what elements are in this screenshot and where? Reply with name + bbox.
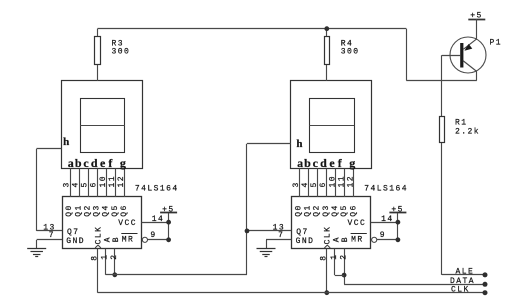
svg-text:CLK: CLK xyxy=(324,226,333,245)
svg-text:a: a xyxy=(297,156,303,170)
svg-text:VCC: VCC xyxy=(348,219,367,228)
svg-text:Q1: Q1 xyxy=(304,204,313,217)
svg-text:Q1: Q1 xyxy=(74,204,83,217)
svg-text:+5: +5 xyxy=(470,11,483,20)
svg-text:74LS164: 74LS164 xyxy=(364,185,408,194)
svg-text:VCC: VCC xyxy=(118,219,137,228)
svg-text:Q6: Q6 xyxy=(349,204,358,217)
svg-text:Q2: Q2 xyxy=(313,204,322,217)
svg-text:Q5: Q5 xyxy=(340,204,349,217)
svg-text:R1: R1 xyxy=(455,119,468,128)
svg-text:B: B xyxy=(112,236,121,242)
svg-text:g: g xyxy=(349,156,355,170)
svg-text:12: 12 xyxy=(346,175,355,188)
svg-text:3: 3 xyxy=(292,181,301,187)
svg-text:8: 8 xyxy=(90,255,99,261)
svg-text:P1: P1 xyxy=(490,38,503,47)
svg-text:Q6: Q6 xyxy=(120,204,129,217)
svg-text:7: 7 xyxy=(278,231,284,240)
svg-text:ALE: ALE xyxy=(456,268,475,277)
svg-text:10: 10 xyxy=(329,175,338,188)
svg-text:GND: GND xyxy=(296,237,315,246)
svg-text:GND: GND xyxy=(66,237,85,246)
svg-text:11: 11 xyxy=(337,175,346,188)
svg-text:3: 3 xyxy=(63,181,72,187)
svg-text:Q4: Q4 xyxy=(102,204,111,217)
svg-text:5: 5 xyxy=(81,181,90,187)
svg-text:e: e xyxy=(329,156,335,170)
svg-text:6: 6 xyxy=(319,181,328,187)
svg-text:9: 9 xyxy=(150,231,156,240)
svg-text:MR: MR xyxy=(122,236,135,245)
svg-text:b: b xyxy=(75,156,82,170)
svg-text:300: 300 xyxy=(112,48,131,57)
svg-text:c: c xyxy=(83,156,89,170)
svg-text:1: 1 xyxy=(330,254,339,260)
svg-text:d: d xyxy=(320,156,327,170)
svg-text:MR: MR xyxy=(351,236,364,245)
svg-text:9: 9 xyxy=(380,231,386,240)
svg-text:Q0: Q0 xyxy=(294,204,303,217)
svg-text:14: 14 xyxy=(152,215,165,224)
svg-text:74LS164: 74LS164 xyxy=(135,185,179,194)
svg-text:b: b xyxy=(304,156,311,170)
svg-text:g: g xyxy=(120,156,126,170)
svg-text:B: B xyxy=(341,236,350,242)
svg-text:Q5: Q5 xyxy=(111,204,120,217)
svg-text:8: 8 xyxy=(320,255,329,261)
svg-text:CLK: CLK xyxy=(451,286,470,295)
svg-text:Q7: Q7 xyxy=(67,228,80,237)
svg-text:h: h xyxy=(63,136,69,148)
svg-text:a: a xyxy=(68,156,74,170)
svg-text:CLK: CLK xyxy=(94,226,103,245)
svg-text:14: 14 xyxy=(381,215,394,224)
svg-text:12: 12 xyxy=(117,175,126,188)
svg-text:d: d xyxy=(91,156,98,170)
svg-text:e: e xyxy=(100,156,106,170)
svg-text:5: 5 xyxy=(310,181,319,187)
svg-text:1: 1 xyxy=(101,254,110,260)
svg-text:11: 11 xyxy=(108,175,117,188)
svg-text:4: 4 xyxy=(301,181,310,187)
svg-text:2: 2 xyxy=(110,254,119,260)
svg-text:10: 10 xyxy=(99,175,108,188)
svg-text:Q7: Q7 xyxy=(296,228,309,237)
svg-text:Q3: Q3 xyxy=(93,204,102,217)
svg-text:Q2: Q2 xyxy=(83,204,92,217)
svg-text:h: h xyxy=(296,138,302,150)
svg-text:300: 300 xyxy=(341,48,360,57)
svg-text:6: 6 xyxy=(90,181,99,187)
svg-text:c: c xyxy=(313,156,319,170)
svg-text:Q4: Q4 xyxy=(331,204,340,217)
svg-text:7: 7 xyxy=(49,231,55,240)
svg-text:2: 2 xyxy=(339,254,348,260)
svg-text:Q0: Q0 xyxy=(65,204,74,217)
svg-text:2.2k: 2.2k xyxy=(455,128,480,137)
svg-text:Q3: Q3 xyxy=(322,204,331,217)
svg-text:4: 4 xyxy=(72,181,81,187)
